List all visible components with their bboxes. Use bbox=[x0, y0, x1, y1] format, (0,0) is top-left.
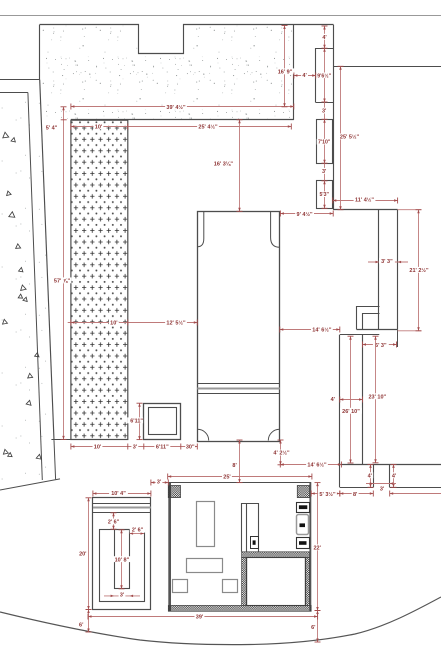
rip-rap band texture bbox=[0, 80, 56, 490]
building top-left hatched block bbox=[168, 486, 180, 498]
dim 39ft 4.5in deck width bbox=[71, 106, 294, 108]
dim 6ft3 bbox=[363, 344, 397, 346]
band bottom left segment bbox=[340, 487, 374, 489]
right edge of steps column bbox=[333, 25, 335, 210]
dim 26ft10 strip length bbox=[350, 336, 352, 463]
svg-text:10' 8": 10' 8" bbox=[115, 557, 130, 563]
building bottom hatched wall bbox=[168, 605, 311, 611]
svg-text:4': 4' bbox=[331, 397, 336, 403]
left structure dims bbox=[93, 493, 151, 495]
building top-right hatched block bbox=[297, 486, 309, 498]
furniture tall table bbox=[197, 502, 215, 547]
furniture square chair right bbox=[223, 580, 238, 593]
road curve bbox=[0, 597, 441, 645]
step line 2 bbox=[93, 512, 151, 514]
dim 12ft 5.5 and 10ft row bbox=[68, 322, 198, 324]
svg-text:8': 8' bbox=[353, 492, 358, 498]
svg-text:16' 9": 16' 9" bbox=[278, 70, 293, 76]
svg-text:30": 30" bbox=[186, 445, 195, 451]
strip right edge bbox=[362, 335, 364, 465]
dim 21ft 2.5 wall height bbox=[398, 209, 422, 211]
cooktop on counter bbox=[251, 537, 259, 549]
furniture square chair left bbox=[173, 580, 188, 593]
paver walkway hatched bbox=[71, 120, 128, 439]
deck left edge upper bbox=[39, 25, 41, 80]
appliance 2 handle bbox=[300, 523, 306, 527]
svg-text:20': 20' bbox=[79, 552, 87, 558]
band line lower segment bbox=[54, 440, 56, 479]
svg-text:4': 4' bbox=[322, 35, 327, 41]
svg-text:10': 10' bbox=[110, 320, 118, 326]
svg-text:6': 6' bbox=[79, 623, 84, 629]
dim 57ft 7/8 vertical along walkway bbox=[63, 107, 65, 440]
step rect B bbox=[317, 120, 333, 164]
wall step notch outer bbox=[357, 307, 380, 330]
pool top-right corner step detail bbox=[271, 212, 280, 248]
band opening left bbox=[373, 464, 375, 487]
svg-text:21' 2½": 21' 2½" bbox=[409, 267, 429, 274]
dim 11ft 4.5 wall top bbox=[333, 200, 398, 202]
svg-text:3': 3' bbox=[322, 169, 327, 175]
dim 25ft 5.5in right steps overall bbox=[340, 66, 342, 209]
svg-text:25' 4½": 25' 4½" bbox=[198, 123, 218, 130]
svg-text:39': 39' bbox=[196, 615, 204, 621]
svg-text:39' 4½": 39' 4½" bbox=[166, 104, 186, 111]
dim 16ft 3 1/8 deck to pool bbox=[239, 120, 241, 212]
svg-text:57' ⅞": 57' ⅞" bbox=[54, 279, 71, 285]
building left wall bbox=[168, 483, 171, 612]
svg-text:8': 8' bbox=[232, 463, 237, 469]
band bottom right segment bbox=[390, 487, 441, 489]
wall line going right at y=66 bbox=[333, 66, 441, 68]
building top dims 25ft and 3ft bbox=[168, 476, 312, 478]
svg-text:9' 4½": 9' 4½" bbox=[297, 211, 314, 218]
svg-text:10': 10' bbox=[95, 124, 103, 130]
dim 9ft 4.5 pool to steps bbox=[280, 213, 333, 215]
band diagonal cut bottom bbox=[0, 479, 60, 490]
wall bottom edge bbox=[357, 329, 398, 331]
left vertical 20ft and 6ft bbox=[88, 498, 90, 610]
step rect C bbox=[317, 181, 333, 209]
dim 39ft bottom bbox=[88, 616, 318, 618]
building top wall bbox=[168, 482, 311, 484]
dim 4ft gap deck to steps bbox=[294, 75, 316, 77]
svg-text:5' 4": 5' 4" bbox=[46, 125, 58, 131]
svg-text:6' 3": 6' 3" bbox=[375, 343, 387, 349]
svg-text:2' 6": 2' 6" bbox=[108, 519, 120, 525]
pool outline bbox=[198, 212, 280, 442]
svg-text:2' 6": 2' 6" bbox=[132, 528, 144, 534]
building right wall bbox=[309, 483, 311, 612]
appliance 3 bbox=[297, 538, 310, 549]
spa dim 6ft11 vertical bbox=[139, 403, 141, 439]
counter outline bbox=[242, 504, 259, 552]
band dims 4ft 3ft 4ft 8ft 5ft3.5 bbox=[370, 464, 372, 487]
svg-text:16' 3⅛": 16' 3⅛" bbox=[214, 162, 234, 168]
svg-text:4': 4' bbox=[302, 73, 307, 79]
deck bottom edge bbox=[71, 119, 294, 121]
dim 14ft 6.5 pool to strip bbox=[280, 329, 340, 331]
svg-text:6'11": 6'11" bbox=[156, 445, 169, 451]
dim 22ft building height bbox=[317, 483, 319, 611]
pool top-left corner step detail bbox=[197, 212, 203, 247]
cooktop knob bbox=[253, 540, 256, 544]
dim 8ft pool to building bbox=[239, 440, 241, 483]
dim 23ft10 bbox=[375, 336, 377, 463]
svg-text:4' 2½": 4' 2½" bbox=[273, 450, 290, 457]
dim row 10ft and 25ft 4.5in bbox=[71, 126, 291, 128]
deck left edge slanted bbox=[40, 80, 54, 441]
dim 3ft3 wall width bbox=[368, 261, 408, 263]
dim 6ft building to road bbox=[317, 611, 319, 643]
band opening right bbox=[389, 464, 391, 487]
appliance 1 bbox=[297, 503, 310, 513]
svg-text:22': 22' bbox=[313, 546, 321, 552]
second boundary line bbox=[0, 92, 28, 94]
deck top edge with notch bbox=[40, 25, 334, 54]
svg-text:4': 4' bbox=[368, 473, 373, 479]
svg-text:12' 5½": 12' 5½" bbox=[166, 319, 186, 326]
left structure center rect bbox=[115, 530, 130, 589]
counter wall inner line bbox=[246, 504, 248, 552]
svg-text:11' 4½": 11' 4½" bbox=[355, 196, 374, 203]
storage room interior outline bbox=[247, 558, 306, 606]
concrete deck stipple area bbox=[40, 25, 294, 120]
svg-text:23' 10": 23' 10" bbox=[368, 394, 386, 400]
dim 4ft strip width bbox=[340, 399, 363, 401]
pool bottom-left corner arc bbox=[198, 429, 209, 440]
svg-text:5'3": 5'3" bbox=[319, 192, 329, 198]
wall top edge y=209.7 bbox=[333, 209, 397, 211]
svg-text:3': 3' bbox=[322, 109, 327, 115]
dim 16ft9 vertical right of deck bbox=[284, 26, 286, 107]
svg-text:25': 25' bbox=[223, 474, 231, 480]
svg-text:3': 3' bbox=[120, 592, 124, 598]
svg-text:14' 6½": 14' 6½" bbox=[307, 462, 327, 469]
pool bottom-right corner arc bbox=[268, 429, 279, 440]
walkway bottom line bbox=[51, 439, 127, 441]
step rect A bbox=[316, 49, 334, 103]
furniture wide sofa bbox=[187, 559, 223, 573]
svg-text:7'10": 7'10" bbox=[318, 140, 331, 146]
svg-text:6'11": 6'11" bbox=[130, 419, 143, 425]
storage room top hatched wall bbox=[242, 552, 310, 558]
appliance 2 (fridge) bbox=[297, 515, 309, 535]
svg-text:14' 6½": 14' 6½" bbox=[312, 327, 332, 334]
rip-rap band inner slanted line bbox=[28, 93, 42, 481]
svg-text:25' 5½": 25' 5½" bbox=[340, 134, 360, 141]
svg-text:3': 3' bbox=[380, 487, 385, 493]
spa inner square bbox=[149, 408, 177, 435]
storage room right hatched wall bbox=[305, 558, 309, 606]
rip-rap triangle symbols bbox=[2, 132, 9, 138]
strip top line bbox=[340, 334, 380, 336]
left structure inner rect bbox=[100, 530, 145, 602]
wall outer right edge bbox=[397, 210, 399, 330]
step line gray bbox=[93, 507, 151, 509]
property line top bbox=[0, 15, 441, 17]
spa bottom dim row bbox=[71, 446, 197, 448]
svg-text:4': 4' bbox=[392, 473, 397, 479]
wall step notch inner bbox=[363, 314, 380, 330]
dim 4ft 2.5 pool corner bbox=[280, 440, 282, 465]
left structure outer rect bbox=[93, 498, 151, 610]
band top line y=464.4 bbox=[340, 464, 441, 466]
svg-text:26' 10": 26' 10" bbox=[342, 409, 360, 415]
svg-text:3': 3' bbox=[157, 480, 161, 486]
appliance 1 handle bbox=[299, 505, 307, 509]
pool step line 2 bbox=[197, 393, 280, 395]
svg-text:3' 3": 3' 3" bbox=[381, 259, 393, 265]
deck right edge bbox=[293, 25, 295, 120]
dim 14ft 6.5 lower bbox=[280, 464, 341, 466]
svg-text:6': 6' bbox=[311, 625, 316, 631]
boundary line to left edge bbox=[0, 79, 40, 81]
svg-text:10' 4": 10' 4" bbox=[111, 491, 126, 497]
pool step line gray bbox=[197, 388, 280, 390]
appliance 3 handle bbox=[299, 541, 307, 545]
wall inner edge bbox=[378, 210, 380, 330]
band left edge bbox=[339, 464, 341, 487]
svg-text:9'6½": 9'6½" bbox=[317, 72, 331, 79]
strip left edge bbox=[339, 335, 341, 465]
svg-text:3': 3' bbox=[133, 445, 138, 451]
svg-text:10': 10' bbox=[94, 445, 102, 451]
svg-text:5' 3½": 5' 3½" bbox=[319, 491, 336, 498]
storage room left hatched wall bbox=[242, 558, 247, 606]
extension below wall corner bbox=[397, 330, 399, 347]
pool step line 1 bbox=[197, 383, 280, 385]
steps column dim chain bbox=[324, 26, 326, 209]
spa outer square bbox=[144, 404, 181, 440]
step line 1 bbox=[93, 503, 151, 505]
